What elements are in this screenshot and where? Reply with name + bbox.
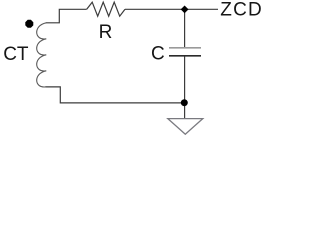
svg-text:R: R: [99, 22, 113, 43]
svg-text:C: C: [151, 43, 165, 64]
node junction top (ZCD node): [181, 6, 189, 14]
resistor R: [87, 2, 125, 16]
ground: [168, 119, 203, 135]
polarity dot: [25, 20, 33, 28]
wire bottom return: [46, 87, 185, 103]
wire top lead from CT to resistor: [46, 9, 87, 22]
wire junction to capacitor: [184, 9, 186, 47]
capacitor C bottom plate: [169, 55, 201, 57]
wire resistor to ZCD: [125, 8, 218, 10]
svg-text:CT: CT: [3, 44, 29, 65]
node junction bottom: [181, 99, 188, 106]
capacitor C top plate: [169, 47, 201, 49]
wire capacitor to ground: [184, 57, 186, 119]
svg-text:ZCD: ZCD: [220, 0, 263, 20]
inductor CT winding: [37, 23, 47, 87]
